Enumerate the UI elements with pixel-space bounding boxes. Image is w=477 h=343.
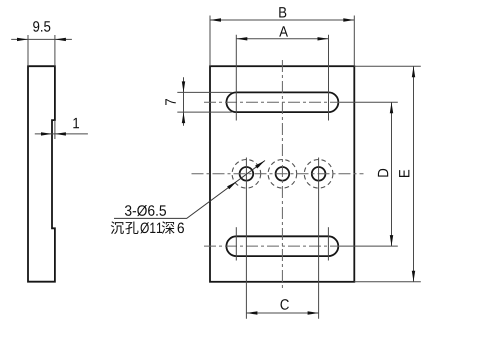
- bottom slot: [226, 236, 338, 256]
- leader arrowhead at counterbore circle: [227, 181, 237, 189]
- dimension C extension lines / hole center ticks: [246, 158, 318, 319]
- dimension D text: [378, 169, 388, 177]
- dimension A extension lines / top slot arc center ticks: [236, 35, 328, 121]
- leader line for counterbore note: [114, 161, 265, 219]
- top slot: [226, 92, 338, 112]
- dimension 9.5 extension lines: [28, 35, 55, 66]
- dimension 9.5 arrows: [17, 38, 28, 41]
- dimension 9.5 line: [11, 38, 72, 40]
- dimension C arrows: [246, 311, 257, 314]
- dimension 1 text: [73, 118, 79, 128]
- dimension B line: [210, 19, 354, 21]
- dimension 7 extension lines: [177, 92, 232, 112]
- bottom slot horizontal centerline: [204, 245, 340, 247]
- hole 3 counterbore dashed circle: [304, 160, 333, 189]
- side view plate outline: [28, 66, 55, 282]
- hole 1 counterbore dashed circle: [232, 160, 261, 189]
- dimension C line: [246, 312, 318, 314]
- dimension 9.5 text: [33, 21, 50, 32]
- note text line 1: 3-dia 6.5: [125, 205, 166, 216]
- dimension B text: [279, 7, 286, 17]
- dimension E extension lines: [354, 66, 421, 282]
- dimension 1 line: [35, 133, 88, 135]
- front view plate outline: [210, 66, 354, 282]
- dimension D arrows: [390, 102, 393, 113]
- vertical main centerline: [281, 60, 283, 289]
- dimension E line: [413, 66, 415, 282]
- dimension D extension lines: [340, 102, 398, 246]
- bottom slot right arc center tick: [327, 227, 329, 260]
- bottom slot left arc center tick: [235, 227, 237, 260]
- top slot horizontal centerline: [204, 101, 340, 103]
- dimension 1 extension line: [54, 120, 56, 139]
- dimension A text: [279, 26, 288, 36]
- dimension 7 arrows: [182, 81, 185, 92]
- dimension D line: [391, 102, 393, 246]
- dimension 7 text: [165, 99, 175, 105]
- dimension A line: [236, 38, 328, 40]
- dimension B arrows: [210, 18, 221, 21]
- dimension C text: [281, 299, 289, 310]
- dimension 7 line: [183, 77, 185, 125]
- dimension E text: [399, 170, 409, 177]
- hole row horizontal centerline: [192, 173, 364, 175]
- leader arrowhead at line end: [255, 161, 265, 169]
- hole 1 circle: [240, 167, 254, 181]
- hole 2 counterbore dashed circle: [268, 160, 297, 189]
- hole 3 circle: [312, 167, 326, 181]
- dimension E arrows: [412, 66, 415, 77]
- note text line 2: counterbore dia 11 depth 6: [111, 221, 124, 234]
- dimension 1 arrows: [41, 132, 52, 135]
- hole 2 circle: [276, 167, 290, 181]
- dimension A arrows: [236, 37, 247, 40]
- dimension B extension lines: [210, 16, 354, 67]
